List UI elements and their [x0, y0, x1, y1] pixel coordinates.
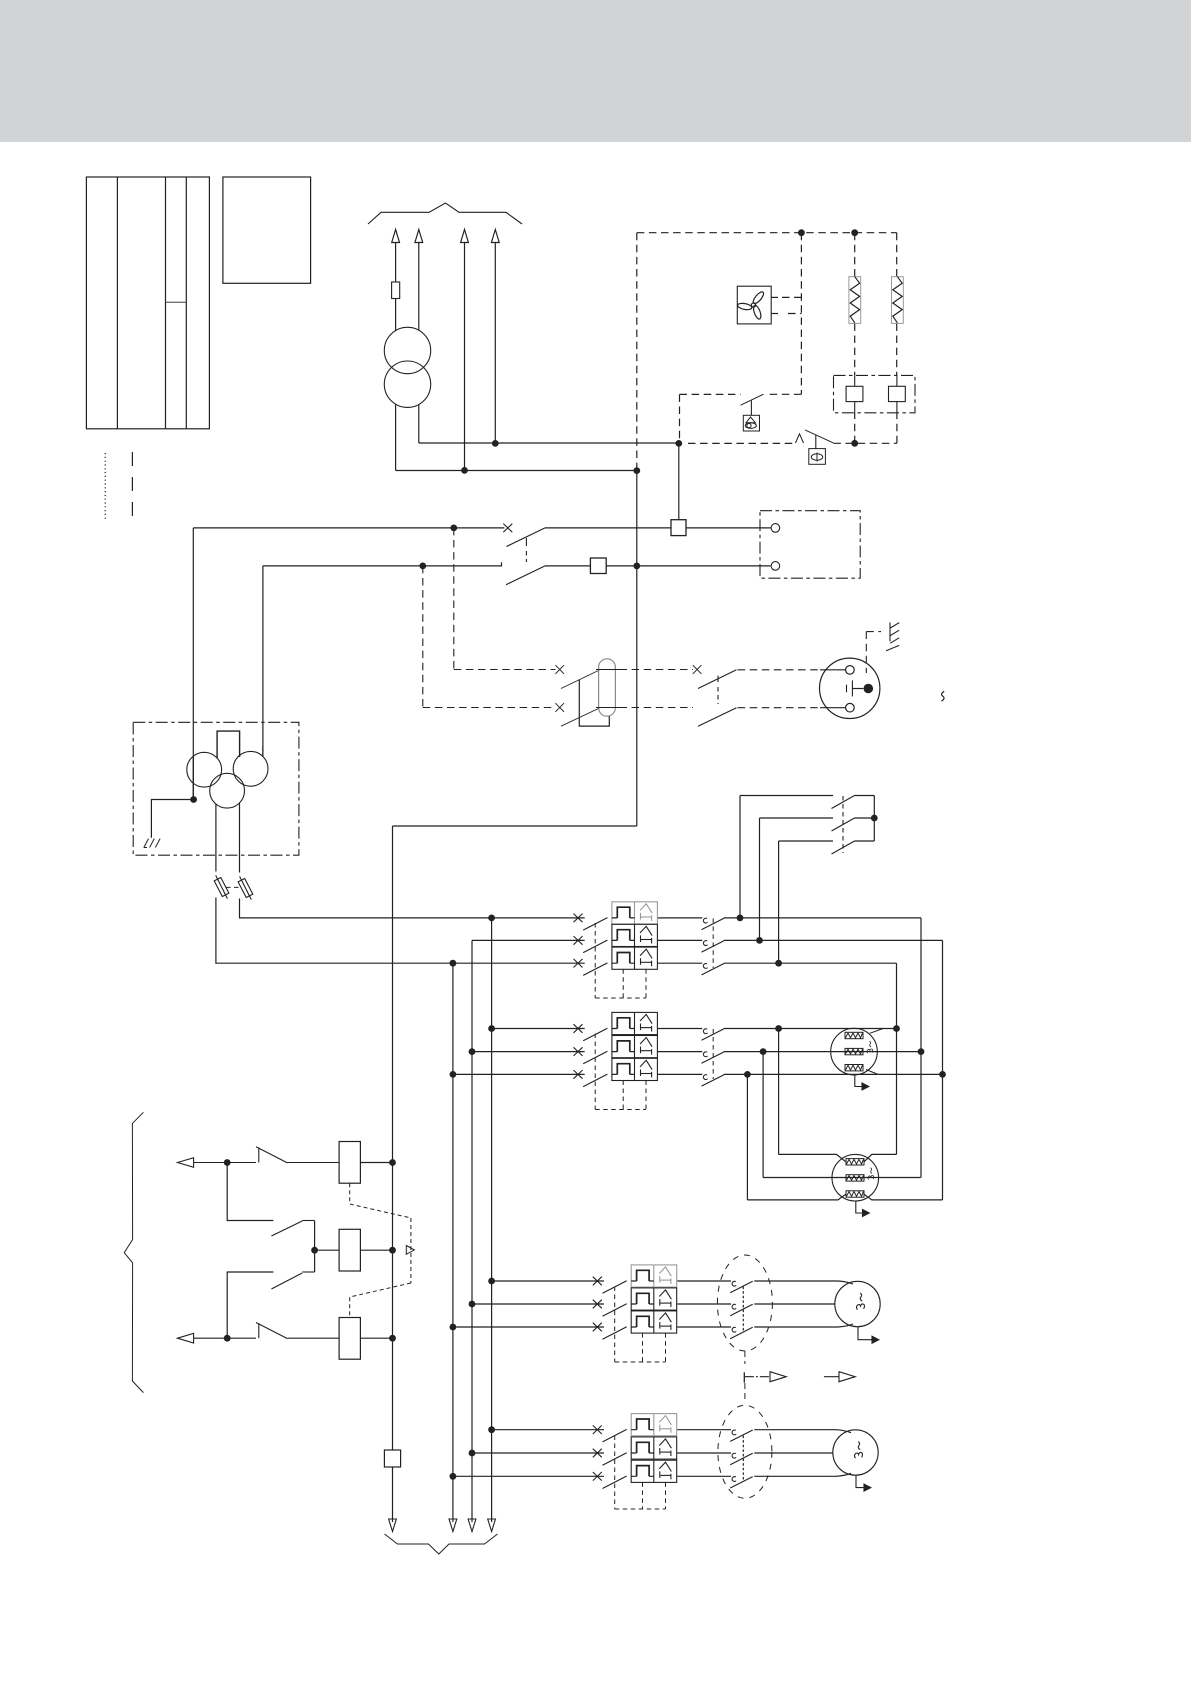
plug switch blades right	[698, 670, 737, 726]
compressor motor M1 windings	[187, 751, 268, 808]
protective earth symbol	[886, 623, 899, 651]
thermal cutout dash-dot box	[834, 375, 916, 412]
bank4 group ellipse	[718, 1405, 772, 1498]
bank2 dots	[450, 1025, 946, 1078]
M2 3~ label	[867, 1041, 873, 1053]
coil K3 to bus	[360, 1249, 392, 1251]
fan M-fan box	[737, 286, 771, 324]
fan impeller icon	[737, 290, 765, 320]
coil K2 to bus	[360, 1162, 392, 1164]
bank4 box 1	[631, 1414, 677, 1436]
legend table	[86, 177, 209, 429]
junction dots top	[461, 440, 682, 474]
row A arrow out	[178, 1158, 257, 1168]
M3 winding 1	[846, 1159, 864, 1165]
evaporator fan M4	[835, 1281, 880, 1326]
appliance plug X0	[820, 658, 880, 718]
bank4 linkage	[615, 1436, 666, 1510]
earth drop dashed	[866, 632, 881, 673]
M3 winding 3	[846, 1191, 864, 1197]
thermo switch S-T1 fixed contact	[795, 434, 803, 443]
capsule sensor	[599, 659, 616, 716]
AC tilde	[941, 691, 944, 701]
earth branch	[151, 800, 193, 838]
legend box	[223, 177, 311, 283]
wire from X4 to phase row1	[240, 899, 585, 918]
component S1 on N	[590, 558, 606, 574]
coil node dots	[224, 1159, 396, 1342]
condenser fan M5	[833, 1430, 878, 1475]
connector X3	[214, 875, 229, 898]
bank3 switch poles	[730, 1281, 753, 1292]
row A switch	[256, 1147, 339, 1163]
coil mech linkage dashed	[350, 1183, 411, 1317]
bank4 switch poles	[730, 1430, 753, 1441]
junction dots	[419, 525, 640, 570]
bank3 box 3	[631, 1311, 677, 1333]
star point dot	[190, 796, 197, 803]
chassis ground	[144, 839, 160, 848]
wires into plug	[820, 670, 846, 708]
bank4 dots	[450, 1426, 496, 1479]
M2 vent arrow	[855, 1075, 869, 1090]
bank1 box 3	[612, 947, 658, 969]
bank1 pole 3	[574, 959, 608, 976]
heater R2	[892, 277, 904, 324]
dashed drop A	[453, 528, 455, 670]
row 1-1 wire	[472, 918, 943, 963]
socket outlet dash-dot box	[760, 511, 860, 579]
wire N row2	[263, 562, 771, 757]
bank2 contactor link	[712, 1029, 714, 1079]
bank4 pole 2	[593, 1449, 627, 1466]
relay coil K4	[339, 1318, 360, 1360]
bank1 box 1	[612, 902, 658, 924]
bank3 box 2	[631, 1288, 677, 1310]
connector pair link	[226, 886, 240, 888]
bank4 box 3	[631, 1460, 677, 1482]
linkage arrow	[406, 1246, 414, 1255]
bank1 pole 1	[574, 914, 608, 931]
fan stubs	[771, 297, 801, 313]
bank2 pole 2	[574, 1047, 608, 1064]
interference filter S3	[384, 1450, 400, 1467]
socket terminal X1	[771, 524, 780, 533]
sensor blades left	[561, 670, 600, 726]
underbrace bottom	[385, 1534, 498, 1554]
bus tail	[392, 1467, 394, 1522]
isolator blades	[832, 796, 855, 855]
bank2 contactor poles	[702, 1029, 725, 1040]
wire L row1	[193, 528, 771, 800]
bank1 contactor poles	[702, 918, 725, 929]
bank3 pole 2	[593, 1300, 627, 1317]
changeover common	[315, 1221, 340, 1273]
bank1 contactor link	[712, 918, 714, 968]
lamp E1 drop wire	[750, 401, 752, 416]
lamp E1	[743, 415, 759, 431]
bank3 linkage	[615, 1287, 666, 1363]
S2 riser to node	[678, 443, 680, 519]
capsule chords	[596, 670, 620, 708]
connector X4	[238, 876, 253, 899]
center vertical bus	[393, 233, 637, 1450]
bank3 pole 1	[593, 1277, 627, 1294]
transformer output wires	[396, 405, 679, 471]
heater R1	[849, 277, 861, 324]
bank2 pole 1	[574, 1024, 608, 1041]
row A x marks	[555, 665, 701, 712]
winding link bracket	[217, 731, 240, 758]
coil K4 to bus	[360, 1337, 392, 1339]
transformer T1	[384, 327, 430, 407]
dashed enclosure	[637, 233, 897, 444]
M5 vent arrow	[856, 1476, 871, 1492]
bank4 pole 3	[593, 1472, 627, 1489]
bank4 dotted link	[742, 1436, 744, 1482]
bank3 box 1	[631, 1265, 677, 1287]
linkage arrow 1	[745, 1372, 786, 1382]
component S2 on L	[671, 520, 686, 536]
M4 vent arrow	[858, 1327, 879, 1343]
bank2 box 2	[612, 1036, 658, 1058]
dashed line sample	[131, 452, 133, 521]
cutout element K1	[846, 375, 863, 412]
thermo switch S-T1 blade	[805, 430, 833, 443]
M3 winding 2	[846, 1175, 864, 1181]
M2 winding 1	[845, 1032, 863, 1038]
winding feed wires	[193, 746, 263, 873]
bank1 pole 2	[574, 936, 608, 953]
changeover upper blade	[271, 1221, 314, 1237]
row B rise to changeover	[227, 1272, 273, 1338]
row B arrow out	[178, 1333, 257, 1343]
row A drop to changeover	[227, 1163, 273, 1221]
bank4 box 2	[631, 1437, 677, 1459]
switch Q1a	[503, 524, 545, 562]
M2 winding 3	[845, 1065, 863, 1071]
header band	[0, 0, 1191, 142]
dotted line sample	[104, 453, 106, 521]
socket terminal X2	[771, 562, 780, 571]
M3 vent arrow	[856, 1201, 870, 1217]
plug earth pin dot	[864, 684, 874, 694]
sensor frame	[579, 680, 609, 726]
wire from X3 to phase row3	[216, 898, 585, 964]
bank3 group ellipse	[717, 1255, 772, 1351]
isolator wires	[740, 796, 874, 964]
bank2 box 1	[612, 1012, 658, 1034]
row A dashed	[423, 670, 820, 708]
bank2 pole 3	[574, 1070, 608, 1087]
bank1 box 2	[612, 924, 658, 946]
bank2 linkage	[595, 1034, 646, 1110]
bank3 dots	[450, 1278, 496, 1331]
M2 winding 2	[845, 1048, 863, 1054]
mains feeder arrows up	[392, 230, 500, 471]
M5 3~ label	[854, 1442, 862, 1459]
lamp switch S-L1 blade	[741, 394, 764, 405]
linkage arrow 2	[824, 1372, 855, 1382]
bank4 pole 1	[593, 1425, 627, 1442]
dashed drop B	[422, 566, 424, 708]
big left brace	[124, 1112, 143, 1392]
bank2 box 3	[612, 1058, 658, 1080]
relay coil K2	[339, 1142, 360, 1184]
lamp E2 drop wire	[815, 435, 817, 449]
bank1 linkage	[595, 923, 646, 998]
changeover lower blade	[271, 1272, 314, 1289]
M3 3~ label	[868, 1168, 874, 1180]
ellipse linkage vertical	[743, 1351, 746, 1400]
M4 wire bends	[838, 1281, 853, 1327]
row B switch	[256, 1323, 339, 1339]
compressor dash-dot box	[133, 722, 299, 855]
isolator node dot	[871, 815, 878, 822]
cutout element K2	[889, 375, 906, 412]
down arrows	[389, 1519, 496, 1532]
fuse F1	[392, 282, 400, 299]
switch Q1b	[506, 566, 545, 585]
lamp E2	[809, 449, 826, 465]
M2 stub diagonals	[866, 1029, 883, 1075]
isolator link	[842, 796, 844, 853]
relay coil K3	[339, 1229, 360, 1271]
overbrace top	[368, 203, 522, 224]
M3 feed wires	[747, 1154, 942, 1200]
M5 wire bends	[836, 1430, 851, 1477]
bank3 pole 3	[593, 1323, 627, 1340]
bank1 dots	[450, 915, 782, 967]
M4 3~ label	[856, 1293, 864, 1310]
bank3 dotted link	[742, 1287, 744, 1333]
